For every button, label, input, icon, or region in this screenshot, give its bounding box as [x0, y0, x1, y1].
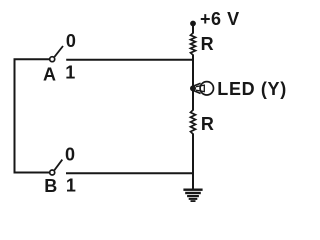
svg-text:LED (Y): LED (Y) — [217, 79, 287, 99]
wire: LED node to resistor R2 — [192, 89, 194, 111]
resistor R1 zigzag — [191, 33, 196, 55]
power node +6V dot — [190, 21, 196, 27]
svg-text:A: A — [43, 65, 56, 85]
wire: +6V dot to resistor R1 — [192, 24, 194, 34]
LED lamp neck top — [194, 83, 200, 86]
wire: R2 to ground — [192, 134, 194, 190]
switch B lever — [54, 160, 62, 171]
wire: R1 to LED node — [192, 55, 194, 90]
svg-text:0: 0 — [66, 31, 76, 51]
wire: left rail from switch A to switch B — [15, 59, 50, 172]
svg-text:R: R — [201, 114, 214, 134]
svg-text:+6 V: +6 V — [200, 9, 240, 29]
switch B pivot circle — [50, 170, 55, 175]
svg-text:R: R — [201, 34, 214, 54]
svg-text:0: 0 — [65, 145, 75, 165]
switch A lever — [54, 46, 63, 57]
LED lamp inner stem — [196, 85, 204, 92]
switch A pivot circle — [50, 57, 55, 62]
resistor R2 zigzag — [191, 110, 196, 134]
ground symbol — [183, 189, 202, 203]
LED lamp neck bottom — [194, 91, 200, 94]
LED lamp junction dot — [190, 85, 196, 91]
LED lamp globe — [200, 82, 213, 95]
svg-text:1: 1 — [66, 175, 76, 195]
wire: switch A contact to main rail — [66, 59, 193, 61]
svg-text:1: 1 — [65, 63, 75, 83]
wire: switch B contact to main rail — [66, 172, 193, 174]
svg-text:B: B — [44, 176, 57, 196]
